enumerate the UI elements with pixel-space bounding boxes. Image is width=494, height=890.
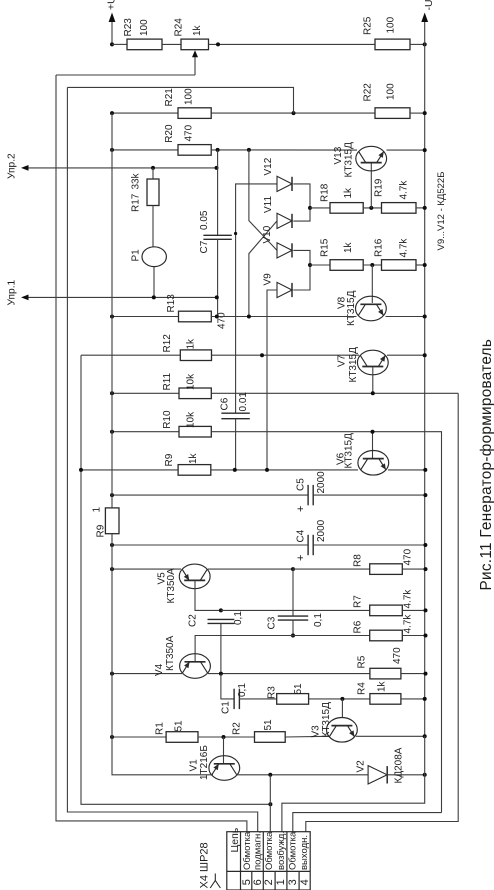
svg-text:КТ315Д: КТ315Д [344,433,355,469]
junction -U V8 [423,315,427,319]
transistor V3 [327,718,358,743]
connector X4 symbol [210,874,220,889]
junction P1 bottom [152,295,156,299]
junction C3 top [291,567,295,571]
transistor V7 [357,350,388,375]
wire +U to R23 [112,43,127,45]
junction line A bottom [233,468,237,472]
resistor R18 [330,203,363,214]
junction -U V13 [423,148,427,152]
svg-text:100: 100 [386,16,397,33]
junction -U V3 [423,734,427,738]
wire R3 to R4 [309,698,370,700]
svg-text:R23: R23 [123,18,134,37]
svg-text:2: 2 [263,879,275,885]
svg-text:C5: C5 [296,478,307,491]
junction pin2 line [268,802,272,806]
wire R15 row [310,264,330,266]
wire R20 row [112,149,178,151]
resistor R16 [382,260,417,271]
junction R15 tap [308,263,312,267]
wire R12 row [81,354,180,356]
wire R4 to -U [401,698,425,700]
svg-text:R6: R6 [353,620,364,633]
svg-text:51: 51 [174,720,185,732]
junction top row [216,42,220,46]
junction bus V5 [110,567,114,571]
connector X4 table [227,832,310,890]
svg-text:4.7k: 4.7k [399,238,410,258]
junction bus V4 [110,672,114,676]
wire V12 anode line A top [236,184,277,413]
svg-text:0,1: 0,1 [237,683,248,697]
svg-text:+: + [295,555,307,561]
junction V1 base [222,735,226,739]
junction line B bottom [247,315,251,319]
junction V13 base [369,206,373,210]
resistor R2 [255,732,286,743]
resistor R24 [181,39,209,50]
svg-text:R16: R16 [374,238,385,257]
wire V3 emitter to -U [356,735,425,737]
svg-text:КД208А: КД208А [394,747,405,783]
svg-text:100: 100 [184,88,195,105]
resistor R4 [370,694,401,705]
svg-text:0,1: 0,1 [313,613,324,627]
svg-text:V10: V10 [262,225,273,243]
resistor R13 [179,311,212,322]
resistor R20 [178,145,211,156]
wire V6 base lead [372,432,374,459]
svg-text:470: 470 [403,548,414,565]
junction R21 R22 node [292,111,296,115]
junction V3 base [340,697,344,701]
svg-text:C2: C2 [188,614,199,627]
wire R9 row left [80,469,178,471]
wire R10 to output corner [211,432,441,813]
wire R9 to V6 [211,469,358,471]
junction -U V7 [423,353,427,357]
wire -U rail [424,44,426,736]
transistor V8 [356,296,387,321]
svg-text:0.05: 0.05 [199,210,210,230]
wire R2 to V3 [285,735,328,738]
wire output3 to pin3 [293,813,442,832]
junction -U R19 [423,206,427,210]
svg-text:Обмотка: Обмотка [264,831,275,870]
svg-text:C7: C7 [199,240,210,253]
junction bus R21 [110,111,114,115]
svg-text:100: 100 [386,83,397,100]
wire V9 anode line [267,290,277,470]
svg-text:R9: R9 [164,453,175,466]
resistor R9 [178,465,211,476]
wire R25 to -U rail [410,43,425,45]
svg-text:R22: R22 [363,83,374,102]
wire R24 wiper arrow lead [194,55,196,75]
resistor R22 [375,108,410,119]
junction -U R8 [424,567,428,571]
wire -U lead [424,17,426,44]
svg-text:4: 4 [299,879,311,885]
svg-text:1k: 1k [192,24,203,36]
capacitor C7 [203,235,231,239]
svg-text:R2: R2 [232,722,243,735]
svg-text:КТ315Д: КТ315Д [344,142,355,178]
wire R6 to -U [402,635,425,637]
junction -U V2 [423,773,427,777]
svg-text:Упр.1: Упр.1 [7,279,18,305]
-U arrow [421,13,428,23]
wire R13 row left [112,316,179,318]
wire C4 row left [112,544,308,546]
svg-text:C1: C1 [221,701,232,714]
wire V7 base lead [372,367,374,393]
svg-text:R9: R9 [96,524,107,537]
junction bus C5 row [110,493,114,497]
svg-text:0.01: 0.01 [238,392,249,412]
svg-text:V3: V3 [311,725,322,738]
wire C2 bottom lead [220,623,222,673]
wire R17 to P1 [152,206,154,248]
svg-text:4.7k: 4.7k [403,614,414,634]
junction Upr1 to C7 line [215,295,219,299]
junction bus C4 row [110,543,114,547]
svg-text:4.7k: 4.7k [403,589,414,609]
junction R17 top [151,166,155,170]
svg-text:R25: R25 [363,16,374,35]
resistor R11 [179,388,211,399]
resistor R23 [127,39,162,50]
svg-text:1: 1 [92,507,103,513]
junction Upr2 to C7 line [215,166,219,170]
wire V10 cathode [293,250,310,290]
junction -U R7 [424,608,428,612]
wire R24 to R25 [209,43,376,45]
wire +U lead [111,17,113,44]
capacitor C6 [221,413,249,419]
wire diag V11 to line B lower [249,221,277,317]
wire V7 emitter to -U [387,354,425,356]
svg-text:Рис.11 Генератор-формирователь: Рис.11 Генератор-формирователь [478,339,494,591]
resistor R7 [370,605,403,616]
svg-text:Обмотка: Обмотка [242,831,253,870]
svg-text:Цепь: Цепь [229,827,241,852]
resistor R12 [180,350,211,361]
svg-text:P1: P1 [131,249,142,262]
svg-text:C6: C6 [220,397,231,410]
diode V9 [277,282,292,297]
svg-text:R7: R7 [353,595,364,608]
svg-text:0,1: 0,1 [233,611,244,625]
wire R22 to -U [410,112,425,114]
wire C1 lead [221,674,234,699]
svg-text:R4: R4 [357,682,368,695]
svg-text:V2: V2 [356,760,367,773]
svg-text:КТ315Д: КТ315Д [348,347,359,383]
wire R5 to -U [401,673,426,675]
wire output4 corner [306,393,458,831]
svg-text:R15: R15 [320,238,331,257]
wire R21 row [112,112,178,114]
svg-text:R20: R20 [164,124,175,143]
wire V8 base lead [371,265,373,303]
wire left bus 3 (R12/R9) [81,355,270,804]
wire R16 to -U [416,264,425,266]
resistor R17 [147,179,159,206]
wire R18 to R19 [363,207,381,209]
wire R1 row [112,736,166,738]
junction C7 bottom [215,315,219,319]
wire R1 to R2 [198,736,255,738]
junction C7 line top [216,148,220,152]
svg-text:V9...V12 - КД522Б: V9...V12 - КД522Б [436,172,447,251]
wire -U bottom corner to pin1 [282,736,425,831]
svg-text:C3: C3 [267,616,278,629]
svg-text:R12: R12 [162,334,173,353]
transistor V5 [179,564,210,589]
wire V13 base lead [370,163,372,208]
svg-text:R3: R3 [267,686,278,699]
svg-text:V12: V12 [263,157,274,175]
svg-text:подмагн.: подмагн. [253,831,264,870]
wire V3 base lead [341,699,343,718]
junction -U top [423,42,427,46]
resistor R6 [370,630,403,641]
resistor R9 (1 Ohm) [105,508,119,534]
svg-text:1k: 1k [186,338,197,350]
wire C1 to R3 [239,698,276,700]
wire pin2 drop [269,775,271,832]
Upr1 arrow [21,295,29,301]
junction V9 line tap [260,353,264,357]
wire C3 to R8 [293,568,370,570]
wire V12 cathode [293,184,310,221]
svg-text:3: 3 [287,879,299,885]
wire bottom row left [112,534,213,775]
wire V1 base lead [223,737,225,764]
svg-text:V4: V4 [154,663,165,676]
wire C7 line lower [217,239,219,316]
diode V10 [277,243,292,258]
resistor R15 [330,260,363,271]
svg-text:КТ350А: КТ350А [165,635,176,671]
wire R23-R24 [162,43,181,45]
wire left bus 1 (wiper) [56,75,247,832]
resistor R3 [277,694,309,705]
wire line B upper + diag to V10 [249,150,277,251]
svg-text:V11: V11 [263,196,274,213]
transistor V6 [358,451,389,476]
wire C7 line upper [217,150,219,235]
resistor R10 [179,426,211,437]
svg-text:R17: R17 [131,193,142,212]
svg-text:2000: 2000 [316,471,327,494]
junction -U C4 [423,543,427,547]
svg-text:51: 51 [263,719,274,731]
svg-text:Упр.2: Упр.2 [7,153,18,179]
junction bus R10 [110,430,114,434]
resistor R25 [375,39,410,50]
wire R12 to V7 [212,354,360,356]
svg-text:2000: 2000 [316,519,327,542]
svg-text:51: 51 [293,683,304,695]
meter P1 [142,247,166,267]
wire line A lower [235,419,237,470]
junction V7 base [371,391,375,395]
wire R13 to V8 [211,316,356,318]
svg-text:R10: R10 [162,410,173,429]
junction bus R11 [110,391,114,395]
junction bus R13 [110,315,114,319]
capacitor C5 [308,485,313,505]
svg-text:33k: 33k [131,172,142,189]
wire V2 to -U [386,774,425,776]
svg-text:R5: R5 [357,655,368,668]
junction C1 top [219,672,223,676]
junction bus R20 [110,148,114,152]
junction V8 base [370,263,374,267]
svg-text:1: 1 [275,879,287,885]
wire C4 row right [313,544,425,546]
wire V5 base lead [195,581,221,611]
wire V8 emitter to -U [386,316,425,318]
Upr2 arrow [21,165,29,171]
wire C3 bottom lead [292,620,294,635]
wire V1 collector row [236,774,368,776]
wire V4 collector to R5 [208,673,370,675]
wire R15 to R16 [363,264,381,266]
capacitor C1 [234,689,239,709]
svg-text:+: + [295,506,307,512]
junction -U R22 [423,111,427,115]
svg-text:R1: R1 [155,722,166,735]
wire Upr2 line [23,167,217,169]
junction pin2 tap [268,773,272,777]
junction V9 line bottom [265,468,269,472]
svg-text:R13: R13 [166,294,177,313]
wire C5 row left [112,494,308,496]
junction bus3 R9 row [79,468,83,472]
svg-text:470: 470 [217,312,228,329]
wire V5 row left [112,568,181,570]
svg-text:V13: V13 [333,146,344,164]
wire V4 base lead [195,636,370,663]
svg-text:R11: R11 [162,372,173,390]
wire V4 row left [112,673,182,675]
R24 wiper arrow [192,50,198,57]
svg-text:1k: 1k [343,187,354,199]
diode V11 [277,213,292,228]
wire R22 riser corner [67,87,293,113]
svg-text:R21: R21 [164,88,175,107]
svg-text:X4 ШР28: X4 ШР28 [199,842,211,888]
svg-text:R19: R19 [374,178,385,197]
wire C2 top to R7 [221,609,370,611]
svg-text:R24: R24 [174,18,185,37]
wire left bus 2 (R21/R22) [67,87,257,831]
junction line B top [247,148,251,152]
svg-text:КТ315Д: КТ315Д [346,290,357,326]
+U arrow [109,13,116,23]
wire R21 to R22 [211,112,375,114]
resistor R8 [370,564,403,575]
svg-text:R8: R8 [353,554,364,567]
capacitor C2 [208,619,235,623]
svg-text:КТ350А: КТ350А [166,568,177,604]
transistor V4 [180,654,211,679]
svg-text:V7: V7 [337,354,348,367]
svg-text:5: 5 [241,879,253,885]
svg-text:V9: V9 [263,273,274,286]
stray junction line A [234,232,237,235]
wire R18 row [310,207,330,209]
transistor V1 [209,756,240,781]
capacitor C3 [278,616,308,620]
junction -U R5 [424,672,428,676]
junction -U R4 [423,697,427,701]
junction bus R1 [110,735,114,739]
junction -U R16 [423,263,427,267]
junction -U C5 [423,493,427,497]
wire V5 collector to C3 [208,568,293,570]
svg-text:4.7k: 4.7k [399,180,410,200]
svg-text:470: 470 [184,124,195,141]
svg-text:10k: 10k [186,373,197,390]
svg-text:R18: R18 [320,183,331,202]
resistor R21 [178,108,211,119]
svg-text:10k: 10k [186,411,197,428]
svg-text:+U: +U [106,0,118,10]
wire R7 to -U [402,609,425,611]
svg-text:C4: C4 [296,529,307,542]
diode V12 [277,176,292,191]
wire Upr1 line [23,296,217,298]
junction V6 base [371,430,375,434]
svg-text:1k: 1k [343,241,354,253]
svg-text:V1: V1 [189,759,200,772]
wire R11 to output [211,392,458,394]
svg-text:1k: 1k [188,452,199,464]
wire C5 row right [313,494,425,496]
transistor V13 [356,146,387,171]
wire R11 row [112,392,179,394]
svg-text:1k: 1k [377,680,388,692]
wire R8 to -U [402,568,425,570]
junction -U V6 [423,468,427,472]
svg-text:470: 470 [392,647,403,664]
wire C3 top lead [292,569,294,616]
svg-text:100: 100 [139,19,150,36]
svg-text:возбужд.: возбужд. [276,831,287,870]
junction R18 tap [308,206,312,210]
diode V2 [368,766,387,784]
junction +U base [110,42,114,46]
resistor R5 [370,668,401,679]
wire wiper to left bus [56,74,195,76]
svg-text:Обмотка: Обмотка [288,831,299,870]
wire V13 emitter to -U [387,149,425,151]
wire P1 to Upr1 line [153,267,155,298]
wire R20 to V13 [211,149,357,151]
resistor R19 [382,203,417,214]
junction -U R6 [424,634,428,638]
wire R10 row [112,431,179,433]
wire V6 emitter to -U [388,469,425,471]
resistor R1 [166,732,198,743]
svg-text:выходн.: выходн. [299,835,310,870]
svg-text:КТ315Д: КТ315Д [321,702,332,738]
